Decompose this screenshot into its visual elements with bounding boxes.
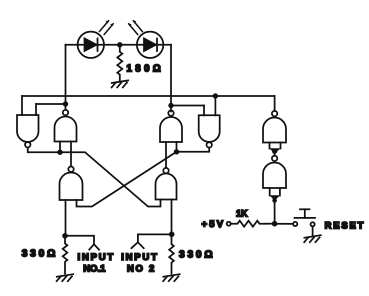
svg-text:NO.1: NO.1 (83, 264, 106, 275)
resistor R3 330ohm (169, 237, 174, 274)
svg-text:330Ω: 330Ω (179, 250, 215, 261)
switch S1 reset pushbutton (293, 209, 315, 226)
node gate B output / LED1 (63, 101, 68, 106)
wire R4 to junction (266, 223, 275, 225)
resistor R4 1K (231, 221, 266, 227)
svg-text:1K: 1K (236, 209, 248, 219)
wire rail reset (top horizontal) (22, 95, 275, 97)
ground under R3 (163, 274, 180, 281)
svg-text:330Ω: 330Ω (22, 248, 58, 259)
wire LED1 cathode drop (65, 45, 67, 109)
wire rail left drop to gate A input 1 (21, 96, 23, 115)
wire drop to gate D input 2 (214, 96, 216, 115)
wire gate E left input to resistor R2 (65, 200, 67, 236)
wire rail right drop to gate G output (274, 96, 276, 111)
node LED center junction (117, 42, 122, 47)
node gate H inputs tie (272, 198, 277, 203)
LED D1 light arrows (100, 20, 114, 34)
wire gate F right input to resistor R3 (171, 200, 173, 235)
node reset junction (272, 221, 278, 227)
wire drop to gate A input 2 (35, 104, 37, 115)
NAND gate D (down) (199, 115, 220, 147)
NAND gate E (up) (60, 167, 83, 201)
svg-text:INPUT: INPUT (78, 252, 116, 263)
svg-text:NO 2: NO 2 (127, 264, 156, 275)
wire input no.2 terminal (131, 234, 171, 248)
wire LED row (66, 44, 172, 46)
node gate C right input (174, 149, 179, 154)
wire gate H inputs to reset line (274, 201, 276, 224)
LED D2 light arrows (128, 20, 142, 34)
LED D2 (137, 32, 163, 58)
NAND gate H (up, reset buffer) (263, 152, 286, 201)
node R2 junction (62, 233, 68, 239)
NAND gate A (down) (17, 115, 39, 147)
node rail / gate D input 2 (213, 93, 218, 98)
ground under switch (304, 235, 321, 242)
terminal +5V open circle (227, 222, 231, 226)
NAND gate G (up, reset buffer) (263, 111, 286, 154)
node gate B left input (57, 150, 62, 155)
svg-text:+5V: +5V (202, 219, 226, 230)
ground under R1 (112, 80, 129, 87)
LED D1 (78, 32, 104, 58)
resistor R1 180ohm (117, 47, 122, 80)
wire input no.1 terminal (65, 236, 99, 250)
wire rail2 left segment (36, 103, 66, 105)
NAND gate B (up) (55, 110, 77, 167)
label INPUT NO.2 (121, 252, 159, 274)
wire LED2 cathode drop (170, 45, 172, 112)
ground under R2 (57, 274, 74, 281)
node gate C output / LED2 (168, 103, 173, 108)
label INPUT NO.1 (78, 252, 116, 274)
NAND gate F (up) (156, 168, 177, 200)
svg-text:INPUT: INPUT (121, 252, 159, 263)
wire switch to ground (312, 226, 314, 235)
resistor R2 330ohm (63, 239, 68, 274)
svg-text:180Ω: 180Ω (127, 64, 165, 75)
wire gate A output to gate B input and cross to gate F (28, 147, 161, 206)
NAND gate C (up) (160, 110, 182, 167)
wire rail2 right segment (171, 105, 204, 107)
wire junction to switch (275, 223, 294, 225)
node R3 junction (169, 232, 175, 238)
node gate G inputs / gate H output (272, 149, 277, 154)
wire gate D output to gate C input and cross to gate E (77, 148, 210, 207)
wire drop to gate D input 1 (203, 106, 205, 116)
svg-text:RESET: RESET (325, 221, 366, 232)
